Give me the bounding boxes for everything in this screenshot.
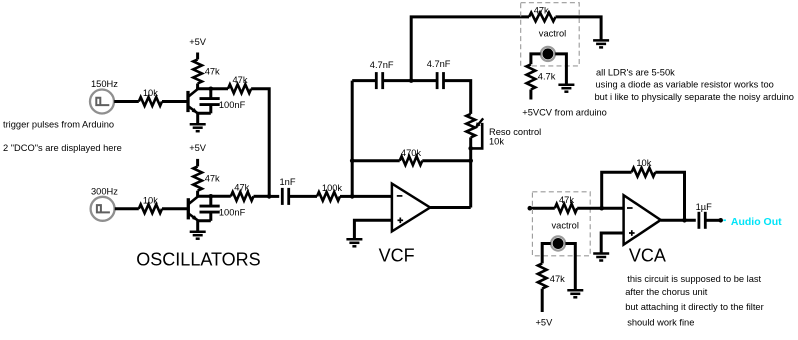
wire V1 to R1 <box>114 100 139 103</box>
capacitor C3 1nF <box>279 177 295 205</box>
wire D2 anode <box>542 244 551 264</box>
ground osc2 emitter <box>190 232 206 239</box>
svg-text:10k: 10k <box>489 137 504 147</box>
resistor R8 470k <box>400 148 423 165</box>
terminal audio out node <box>718 218 723 223</box>
wire node A to U1 inverting input <box>352 195 392 198</box>
wire R10 to CV input <box>529 90 532 100</box>
terminal VCA input node <box>528 206 533 211</box>
pulse source V2 300Hz <box>91 197 115 221</box>
resistor R7 100k <box>317 183 342 201</box>
wire R5 to collector rail <box>196 191 199 197</box>
svg-text:300Hz: 300Hz <box>91 187 118 197</box>
junction U2 inverting node <box>599 206 604 211</box>
wire U2 noninverting input to ground <box>601 233 623 253</box>
wire D1 anode <box>531 54 541 64</box>
svg-text:trigger pulses from Arduino: trigger pulses from Arduino <box>3 119 114 129</box>
svg-text:1nF: 1nF <box>279 177 295 187</box>
wire R3 to mixer node <box>251 89 269 197</box>
svg-text:100nF: 100nF <box>219 100 246 110</box>
wire feedback to U2 output <box>655 172 684 220</box>
resistor R1 10k <box>139 88 162 106</box>
resistor R6 47k <box>231 183 254 201</box>
wire feedback junction to U1 output <box>469 161 472 208</box>
svg-text:150Hz: 150Hz <box>91 79 118 89</box>
op-amp U2 <box>624 195 661 245</box>
wire V2 to R4 <box>115 207 139 210</box>
svg-text:10k: 10k <box>636 158 651 168</box>
transistor Q1 <box>188 89 198 114</box>
svg-text:+5VCV from arduino: +5VCV from arduino <box>522 108 607 118</box>
junction U2 output node <box>682 218 687 223</box>
svg-text:4.7k: 4.7k <box>538 71 556 81</box>
svg-text:using a diode as variable resi: using a diode as variable resistor works… <box>596 80 774 90</box>
wire R11 to U2 inverting input <box>577 207 623 210</box>
svg-text:vactrol: vactrol <box>539 28 566 38</box>
svg-text:4.7nF: 4.7nF <box>370 60 394 70</box>
svg-text:100nF: 100nF <box>219 207 246 217</box>
svg-text:47k: 47k <box>205 173 220 183</box>
junction feedback right <box>468 158 473 163</box>
resistor R12 47k <box>538 263 565 288</box>
wire R6 to mixer node <box>254 195 270 198</box>
wire pot to feedback junction <box>469 137 472 160</box>
svg-text:1µF: 1µF <box>696 202 713 212</box>
svg-text:vactrol: vactrol <box>552 221 579 231</box>
svg-text:47k: 47k <box>534 5 549 15</box>
svg-text:+5V: +5V <box>535 318 553 328</box>
transistor Q2 <box>188 196 198 221</box>
wire R8 to output node <box>422 159 470 162</box>
wire to R8 <box>352 159 400 162</box>
capacitor C6 1uF <box>696 202 713 229</box>
junction feedback tee <box>350 158 355 163</box>
wire C3 to R7 <box>289 195 317 198</box>
wire R4 to Q2 base <box>162 207 188 210</box>
svg-text:VCA: VCA <box>629 246 666 266</box>
capacitor C1 100nF <box>200 89 246 114</box>
svg-text:10k: 10k <box>143 195 158 205</box>
resistor R3 47k <box>228 75 251 93</box>
node A junction <box>350 194 355 199</box>
svg-text:+5V: +5V <box>189 143 207 153</box>
svg-text:all LDR's are 5-50k: all LDR's are 5-50k <box>596 68 675 78</box>
resistor R9 47k LDR <box>529 5 556 21</box>
svg-text:this circuit is supposed to be: this circuit is supposed to be last <box>627 274 761 284</box>
wire D2 cathode to ground <box>565 244 575 291</box>
capacitor C2 100nF <box>200 196 246 221</box>
wire node A vertical to filter caps <box>351 81 354 197</box>
wire U2 output <box>661 219 696 222</box>
ground U1 plus input <box>346 239 362 246</box>
junction pot bottom <box>468 146 473 151</box>
resistor R11 47k LDR <box>555 195 577 213</box>
svg-text:VCF: VCF <box>379 246 415 266</box>
wire R1 to Q1 base <box>162 100 188 103</box>
wire C5 to reso pot <box>444 81 471 114</box>
wire R9 to ground <box>556 17 602 40</box>
wire mixer to C3 <box>269 195 279 198</box>
svg-text:OSCILLATORS: OSCILLATORS <box>136 249 260 269</box>
pulse source V1 150Hz <box>90 90 114 114</box>
svg-text:+5V: +5V <box>189 37 207 47</box>
junction collector node osc2 <box>209 194 214 199</box>
svg-text:100k: 100k <box>322 183 343 193</box>
wire collector rail Q1 <box>196 87 228 90</box>
wire U1 output <box>430 206 471 209</box>
ground vactrol 1 LED <box>558 85 574 92</box>
svg-text:but attaching it directly to t: but attaching it directly to the filter <box>625 302 764 312</box>
junction collector node osc1 <box>209 87 214 92</box>
wire C4 to node B <box>383 79 412 82</box>
resistor R13 10k <box>632 158 656 177</box>
wire +5V to R5 <box>196 159 199 167</box>
svg-text:47k: 47k <box>234 183 249 193</box>
resistor R2 47k <box>193 59 220 83</box>
svg-text:2 "DCO"s are displayed here: 2 "DCO"s are displayed here <box>3 143 122 153</box>
potentiometer RV1 Reso control 10k <box>466 114 541 148</box>
svg-text:should work fine: should work fine <box>627 318 694 328</box>
wire C6 to audio out <box>705 219 720 222</box>
wire R12 to +5V <box>541 289 544 312</box>
wire input to R11 <box>530 207 555 210</box>
wire to C4 <box>352 79 376 82</box>
resistor R5 47k <box>193 166 220 190</box>
wire R2 to collector rail <box>196 84 199 89</box>
wire collector rail Q2 <box>196 195 230 198</box>
svg-text:4.7nF: 4.7nF <box>427 59 451 69</box>
wire node B to top rail <box>411 17 529 81</box>
capacitor C5 4.7nF <box>411 59 451 89</box>
svg-text:Audio Out: Audio Out <box>731 216 782 228</box>
wire +5V to R2 <box>196 53 199 60</box>
svg-text:470k: 470k <box>401 148 422 158</box>
dashed enclosure vactrol 1 <box>521 3 580 66</box>
svg-text:47k: 47k <box>205 66 220 76</box>
wire feedback up from inverting node <box>602 172 632 208</box>
cyan tick at audio out <box>723 219 726 221</box>
node B junction <box>409 78 414 83</box>
wire R7 to node A <box>340 195 352 198</box>
wire U1 noninverting input to ground <box>354 220 392 239</box>
resistor R4 10k <box>139 195 162 213</box>
wire emitter Q1 to ground <box>198 113 211 124</box>
ground U2 plus input <box>593 254 609 261</box>
svg-text:after the chorus unit: after the chorus unit <box>625 287 708 297</box>
svg-text:47k: 47k <box>233 75 248 85</box>
dashed enclosure vactrol 2 <box>532 192 590 256</box>
svg-text:47k: 47k <box>559 195 574 205</box>
capacitor C4 4.7nF <box>370 60 394 89</box>
op-amp U1 <box>392 184 430 232</box>
LED D1 of vactrol <box>541 47 555 61</box>
svg-text:but i like to physically separ: but i like to physically separate the no… <box>595 92 794 102</box>
ground top right <box>593 40 609 47</box>
LED D2 of vactrol <box>551 236 565 250</box>
svg-text:Reso control: Reso control <box>489 127 541 137</box>
ground vactrol 2 LED <box>567 290 583 297</box>
ground osc1 emitter <box>190 124 206 131</box>
junction mixer node <box>267 194 272 199</box>
resistor R10 4.7k <box>527 64 556 89</box>
svg-text:47k: 47k <box>550 274 565 284</box>
svg-text:10k: 10k <box>143 88 158 98</box>
wire emitter Q2 to ground <box>198 221 211 232</box>
wire D1 cathode to ground <box>555 54 566 85</box>
